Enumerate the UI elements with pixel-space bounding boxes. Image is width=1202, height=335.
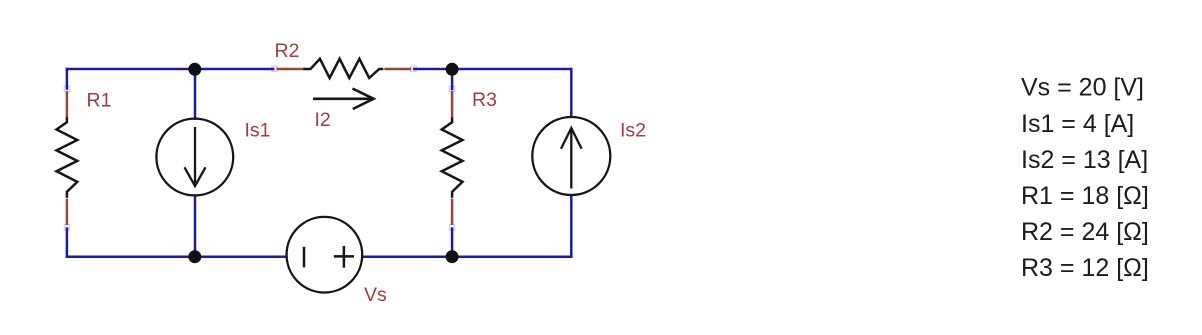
wire right vertical upper segment <box>570 68 573 118</box>
pin marker R2 left <box>272 66 277 71</box>
svg-text:Is1 = 4 [A]: Is1 = 4 [A] <box>1021 110 1134 138</box>
svg-text:Is2: Is2 <box>620 119 646 141</box>
wire left vertical lower stub <box>66 227 69 258</box>
current source Is1 <box>156 119 233 196</box>
pin marker R1 top <box>64 86 69 91</box>
svg-text:R3: R3 <box>472 89 497 111</box>
pin marker R1 bottom <box>64 225 69 230</box>
wire top-left horizontal segment <box>66 68 275 71</box>
resistor R1 <box>57 91 78 225</box>
svg-text:R3 = 12 [Ω]: R3 = 12 [Ω] <box>1021 254 1149 282</box>
node dot bottom-left <box>188 250 201 263</box>
node dot top-right <box>446 63 459 76</box>
wire bottom-left horizontal segment <box>66 256 286 259</box>
wire top-right horizontal segment <box>413 68 573 71</box>
resistor R2 <box>277 59 412 78</box>
resistor R3 <box>442 91 463 225</box>
svg-text:Is2 = 13 [A]: Is2 = 13 [A] <box>1021 146 1148 174</box>
wire Is1 lower stub <box>194 195 197 257</box>
svg-text:R2 = 24 [Ω]: R2 = 24 [Ω] <box>1021 218 1149 246</box>
svg-text:R2: R2 <box>275 40 300 62</box>
wire R3 upper stub <box>451 69 454 90</box>
node dot bottom-right <box>446 250 459 263</box>
svg-text:R1: R1 <box>87 90 112 112</box>
voltage source Vs <box>287 217 363 293</box>
svg-text:R1 = 18 [Ω]: R1 = 18 [Ω] <box>1021 182 1149 210</box>
current arrow I2 <box>313 89 374 110</box>
svg-text:Vs = 20 [V]: Vs = 20 [V] <box>1021 74 1144 102</box>
svg-text:I2: I2 <box>315 109 331 131</box>
current source Is2 <box>532 117 610 195</box>
node dot top-left <box>188 63 201 76</box>
wire right vertical lower segment <box>570 195 573 259</box>
pin marker R3 top <box>449 86 454 91</box>
wire R3 lower stub <box>451 227 454 256</box>
wire bottom-right horizontal segment <box>363 256 573 259</box>
svg-text:Vs: Vs <box>364 284 387 306</box>
svg-text:Is1: Is1 <box>245 120 271 142</box>
wire Is1 upper stub <box>194 69 197 120</box>
pin marker R3 bottom <box>449 225 454 230</box>
pin marker R2 right <box>411 66 416 71</box>
wire left vertical upper stub <box>66 68 69 90</box>
